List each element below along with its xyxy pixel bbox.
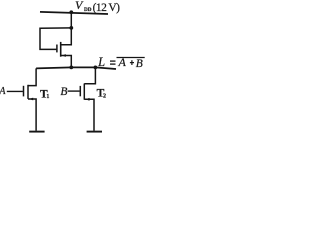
- arrow on T2 source: [86, 98, 90, 101]
- ground T1: [29, 131, 44, 133]
- wire output node L: [36, 67, 116, 69]
- svg-text:B: B: [60, 86, 67, 98]
- svg-text:DD: DD: [84, 7, 92, 13]
- wire T1 source to ground: [28, 99, 36, 131]
- svg-text:2: 2: [103, 94, 106, 100]
- wire input B to T2 gate: [68, 90, 80, 92]
- svg-text:V: V: [75, 0, 84, 12]
- transistor load gate bar: [56, 45, 58, 53]
- transistor T1 gate bar: [23, 86, 25, 97]
- VDD rail: [40, 12, 108, 14]
- arrow on T1 source: [29, 98, 33, 101]
- node VDD junction dot: [69, 10, 73, 14]
- transistor load channel bar: [60, 42, 62, 57]
- node dot T2 drain: [94, 66, 98, 70]
- svg-text:A: A: [118, 55, 127, 69]
- node dot load source: [69, 66, 73, 70]
- svg-text:B: B: [136, 58, 143, 70]
- wire T1 drain to node: [28, 68, 36, 85]
- wire T2 source to ground: [84, 99, 94, 130]
- svg-text:1: 1: [46, 94, 49, 100]
- wire load source to output node: [61, 56, 72, 68]
- svg-text:L: L: [97, 55, 105, 69]
- arrow on load source: [62, 54, 66, 57]
- transistor T1 channel bar: [27, 85, 29, 99]
- ground T2: [87, 131, 102, 133]
- wire T2 drain to node: [84, 67, 95, 83]
- equals sign of output label: [110, 60, 116, 62]
- node loop junction dot: [69, 26, 73, 30]
- svg-text:(12 V): (12 V): [93, 2, 121, 14]
- wire input A to T1 gate: [7, 90, 23, 92]
- plus sign in A+B: [130, 62, 134, 64]
- transistor T2 channel bar: [83, 84, 85, 100]
- wire gate-drain loop of load: [40, 28, 71, 50]
- wire load drain to VDD: [61, 12, 72, 45]
- transistor T2 gate bar: [79, 86, 81, 96]
- svg-text:A: A: [0, 86, 6, 97]
- overline of A+B in output label: [117, 57, 145, 59]
